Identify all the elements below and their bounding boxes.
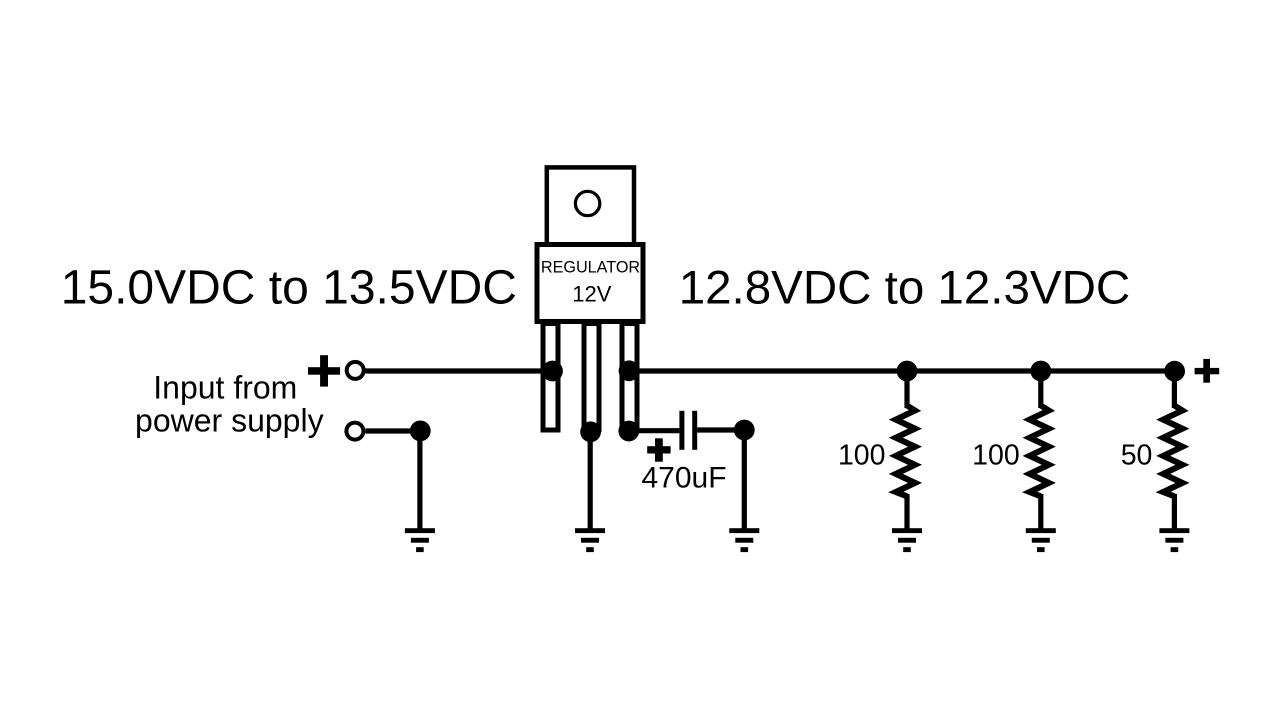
regulator U1 label 12V bbox=[572, 282, 611, 307]
plus sign at capacitor bbox=[647, 438, 670, 461]
wire input negative junction down to ground bbox=[417, 431, 422, 531]
wire input negative terminal to junction bbox=[366, 428, 421, 433]
resistor R1 value label 100 bbox=[838, 440, 886, 472]
wire rail down to resistor R3 bbox=[1172, 371, 1177, 408]
regulator U1 pin 2 (ground leg) bbox=[584, 324, 599, 430]
wire resistor R3 to ground bbox=[1172, 494, 1177, 531]
regulator U1 body bbox=[537, 245, 643, 322]
plus sign at output rail end bbox=[1195, 359, 1220, 383]
wire capacitor to ground junction bbox=[697, 427, 744, 432]
label input source line 2 bbox=[135, 402, 324, 438]
junction dot at capacitor ground bbox=[734, 420, 755, 441]
wire rail down to resistor R2 bbox=[1038, 371, 1043, 408]
svg-text:15.0VDC to 13.5VDC: 15.0VDC to 13.5VDC bbox=[61, 262, 517, 315]
svg-text:power supply: power supply bbox=[135, 402, 324, 438]
svg-text:REGULATOR: REGULATOR bbox=[541, 259, 640, 277]
plus sign at input terminal bbox=[308, 355, 340, 386]
wire capacitor junction down to ground bbox=[742, 430, 747, 531]
ground symbol under resistor R1 bbox=[892, 528, 922, 552]
junction dot at regulator ground pin bottom bbox=[580, 421, 601, 442]
wire regulator pin3 to output rail bbox=[636, 368, 1175, 373]
junction dot at regulator output pin bottom bbox=[618, 421, 639, 442]
svg-text:Input from: Input from bbox=[153, 370, 297, 406]
capacitor C1 positive plate bbox=[679, 411, 684, 450]
ground symbol under capacitor bbox=[729, 528, 759, 552]
capacitor C1 value label 470uF bbox=[642, 462, 727, 495]
resistor R3 value label 50 bbox=[1121, 440, 1153, 472]
wire input positive to regulator pin1 bbox=[366, 368, 544, 373]
resistor R2 zigzag bbox=[1030, 406, 1049, 497]
regulator U1 label REGULATOR bbox=[541, 259, 640, 277]
junction dot at resistor R1 bbox=[897, 361, 918, 382]
wire rail down to resistor R1 bbox=[904, 371, 909, 408]
svg-text:470uF: 470uF bbox=[642, 462, 727, 495]
resistor R2 value label 100 bbox=[972, 440, 1020, 472]
resistor R3 zigzag bbox=[1163, 406, 1182, 497]
capacitor C1 negative plate bbox=[692, 411, 697, 450]
regulator U1 pin 3 (output leg) bbox=[622, 324, 637, 429]
wire resistor R2 to ground bbox=[1038, 494, 1043, 531]
regulator U1 tab bbox=[547, 167, 634, 244]
wire resistor R1 to ground bbox=[904, 494, 909, 531]
input positive terminal bbox=[347, 362, 364, 379]
svg-text:12V: 12V bbox=[572, 282, 611, 307]
ground symbol under input negative bbox=[405, 528, 435, 552]
ground symbol under resistor R3 bbox=[1159, 528, 1189, 552]
junction dot at input negative bbox=[410, 421, 431, 442]
junction dot at resistor R3 bbox=[1164, 361, 1185, 382]
wire regulator output pin bottom to capacitor bbox=[629, 428, 679, 433]
junction dot at regulator pin3 on rail bbox=[619, 360, 640, 381]
junction dot at resistor R2 bbox=[1030, 361, 1051, 382]
junction dot at regulator pin1 bbox=[542, 361, 563, 382]
resistor R1 zigzag bbox=[896, 406, 915, 497]
regulator U1 mounting hole bbox=[575, 191, 599, 215]
label input voltage range bbox=[61, 262, 517, 315]
wire regulator ground pin down to ground bbox=[588, 432, 593, 531]
input negative terminal bbox=[346, 423, 363, 440]
ground symbol under regulator ground pin bbox=[575, 528, 605, 552]
ground symbol under resistor R2 bbox=[1026, 528, 1056, 552]
label output voltage range bbox=[679, 262, 1130, 315]
svg-text:50: 50 bbox=[1121, 440, 1153, 472]
svg-text:12.8VDC to 12.3VDC: 12.8VDC to 12.3VDC bbox=[679, 262, 1130, 315]
svg-text:100: 100 bbox=[972, 440, 1020, 472]
label input source line 1 bbox=[153, 370, 297, 406]
svg-text:100: 100 bbox=[838, 440, 886, 472]
regulator U1 pin 1 (input leg) bbox=[543, 324, 558, 431]
